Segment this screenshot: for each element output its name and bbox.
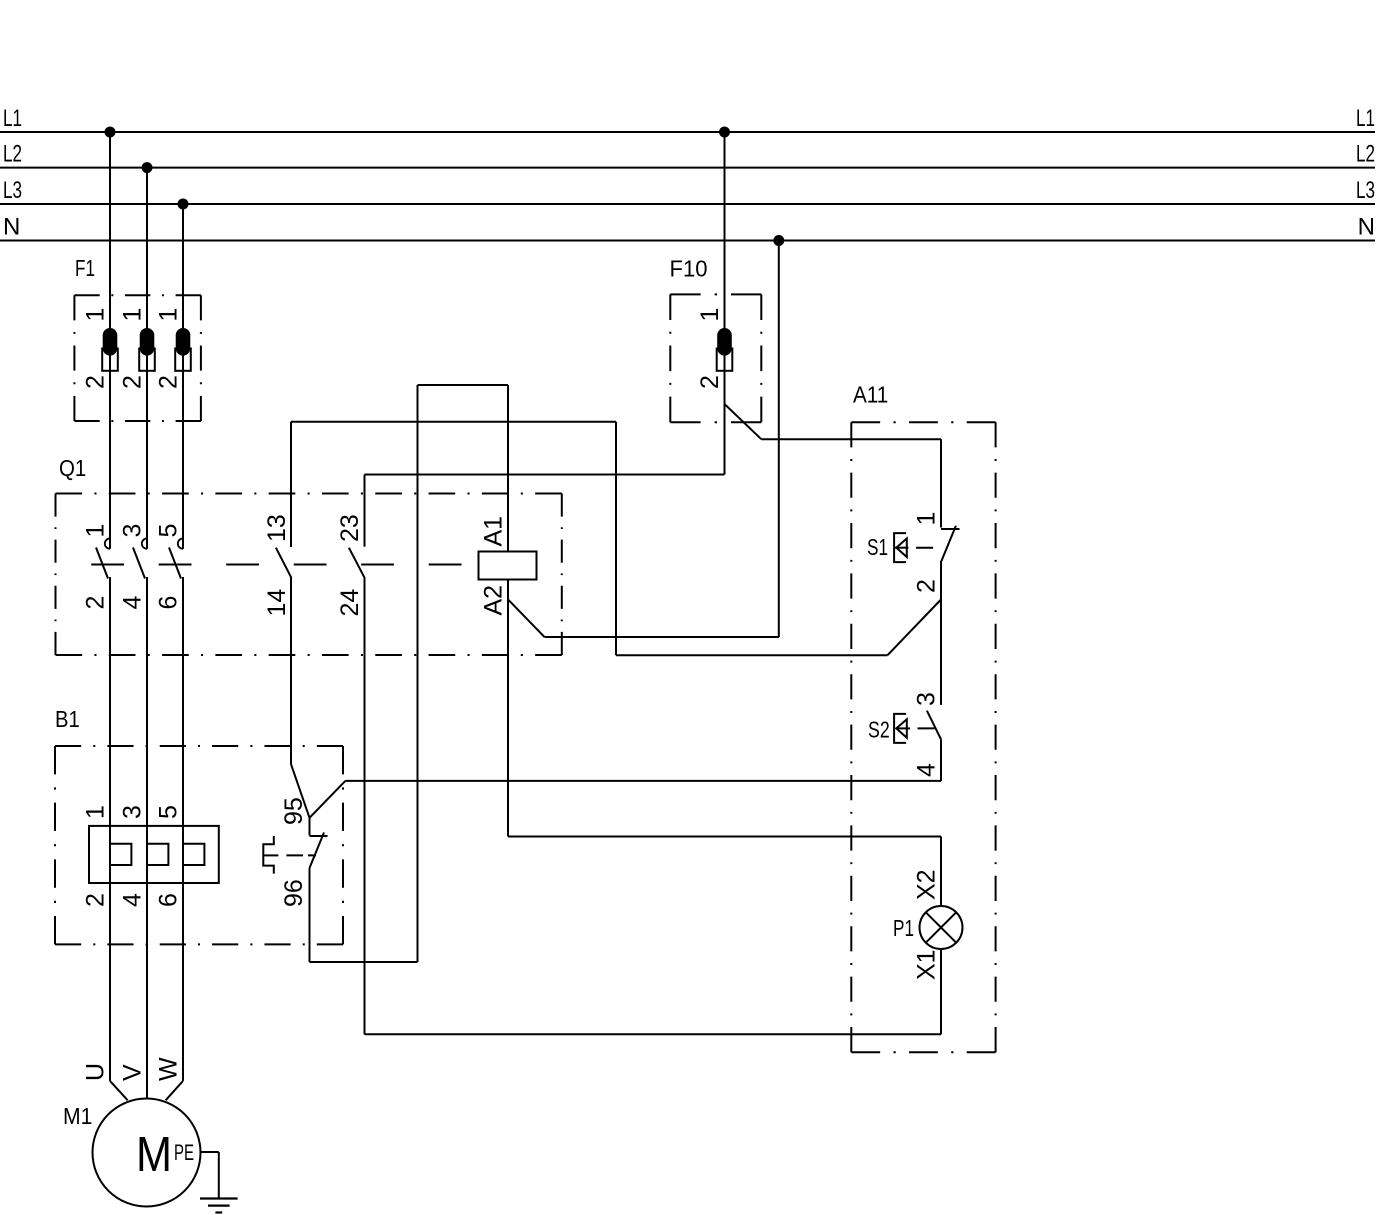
motor PE text	[174, 1140, 194, 1165]
svg-text:S1: S1	[867, 534, 888, 560]
wire S1 to S2 lead	[940, 600, 942, 705]
pin 2 of F1 pole 1	[82, 375, 110, 389]
svg-text:24: 24	[336, 589, 364, 617]
fuse F1 pole 2	[139, 328, 155, 371]
svg-text:2: 2	[913, 579, 941, 593]
thermal trip linkage dashed	[286, 854, 316, 856]
pin 96 of B1	[280, 879, 308, 907]
svg-text:1: 1	[913, 512, 941, 526]
wire 14 to 95 diagonal	[291, 764, 310, 818]
pin 3 of B1	[119, 805, 147, 819]
pin 3 of S2	[913, 692, 941, 706]
contact B1 95-96 arm	[310, 833, 325, 869]
pin 5 of Q1	[155, 524, 183, 538]
contact Q1 aux 23-24	[349, 548, 365, 578]
svg-text:3: 3	[119, 524, 147, 538]
wire X1 horizontal to 24	[365, 1033, 942, 1035]
svg-text:X2: X2	[913, 869, 941, 900]
motor M1	[93, 1099, 201, 1207]
contact Q1 aux 13-14	[276, 548, 291, 578]
thermal trip linkage solid	[263, 854, 278, 856]
wire S1-2 horizontal to 13	[616, 654, 888, 656]
fuse F1 pole 1	[102, 328, 118, 371]
pushbutton S2 label	[868, 717, 890, 743]
node L1 left label	[3, 105, 22, 132]
coil Q1 A1-A2	[479, 552, 537, 580]
fuse F1 pole 3	[175, 328, 191, 371]
S1 actuator linkage solid	[895, 547, 908, 549]
contact Q1 main 1-2	[96, 538, 110, 578]
contact S2 NO arm	[927, 711, 941, 740]
wire S1 bottom lead	[940, 561, 942, 600]
mechanical linkage Q1 dashed	[91, 564, 478, 566]
wire F10 to S1 diagonal	[725, 404, 762, 439]
svg-text:L3: L3	[1356, 177, 1375, 204]
svg-text:L1: L1	[3, 105, 22, 132]
node L1 right label	[1356, 105, 1375, 132]
pin 2 of F1 pole 2	[119, 375, 147, 389]
contact S1 NC arm	[941, 526, 956, 562]
contact B1 95-96 bar	[310, 835, 328, 837]
svg-text:96: 96	[280, 879, 308, 907]
wire 96 down-lead	[309, 868, 311, 962]
pin 4 of S2	[913, 763, 941, 777]
overload relay B1 label	[55, 706, 80, 732]
svg-text:1: 1	[82, 308, 110, 322]
node N left label	[3, 214, 20, 241]
pin 2 of Q1	[82, 596, 110, 610]
wire X2 horizontal	[508, 836, 941, 838]
svg-text:1: 1	[119, 308, 147, 322]
wire 95 lead	[309, 818, 311, 836]
pin 4 of B1	[119, 893, 147, 907]
junction N to coil return	[773, 235, 784, 246]
terminal V label	[119, 1064, 147, 1081]
svg-text:F10: F10	[670, 256, 708, 282]
svg-text:L1: L1	[1356, 105, 1375, 132]
motor M symbol text	[136, 1128, 172, 1182]
fuse block F1 enclosure	[74, 295, 200, 421]
pin 13 of Q1	[263, 514, 291, 542]
svg-text:W: W	[155, 1057, 183, 1081]
svg-text:2: 2	[82, 375, 110, 389]
wire neutral rail N	[0, 240, 1375, 242]
fuse F10	[717, 328, 733, 371]
svg-text:B1: B1	[55, 706, 80, 732]
wire PE to ground	[201, 1152, 219, 1199]
wire power rail L2	[0, 167, 1375, 169]
svg-text:M1: M1	[63, 1103, 92, 1129]
pin X2 of P1	[913, 869, 941, 900]
svg-text:2: 2	[82, 596, 110, 610]
svg-text:5: 5	[155, 524, 183, 538]
lamp P1 label	[893, 915, 914, 941]
control station A11 label	[853, 381, 888, 407]
svg-text:M: M	[136, 1128, 172, 1182]
pin 1 of B1	[82, 805, 110, 819]
svg-text:5: 5	[155, 805, 183, 819]
wire Q1 13 up-lead	[290, 422, 292, 547]
svg-text:P1: P1	[893, 915, 914, 941]
svg-text:95: 95	[280, 797, 308, 825]
pin X1 of P1	[913, 949, 941, 980]
wire horizontal to 13	[291, 421, 616, 423]
svg-text:1: 1	[155, 308, 183, 322]
wire L3 drop to Q1 contact 5	[182, 204, 184, 549]
wire L2 drop to Q1 contact 3	[146, 168, 148, 549]
wire S1-2 diagonal	[888, 600, 942, 656]
thermal trip symbol B1	[263, 836, 274, 874]
wire X1 down-lead	[940, 949, 942, 1034]
pin 1 of F10	[696, 308, 724, 322]
svg-text:2: 2	[696, 375, 724, 389]
svg-text:A1: A1	[479, 516, 507, 547]
wire Q1 24 down-lead to lamp	[364, 577, 366, 1034]
wire F10 to 23 horizontal	[365, 474, 725, 476]
pin A2 of Q1	[479, 585, 507, 616]
heater B1 pole 3	[183, 844, 204, 865]
S1 actuator linkage dashed	[916, 547, 933, 549]
pin 6 of Q1	[155, 596, 183, 610]
svg-text:3: 3	[913, 692, 941, 706]
svg-text:F1: F1	[75, 255, 95, 281]
svg-text:S2: S2	[868, 717, 890, 743]
terminal W label	[155, 1057, 183, 1081]
contact S1 bar	[941, 528, 960, 530]
svg-text:N: N	[1358, 214, 1375, 241]
wire Q1 23 up-lead	[364, 475, 366, 547]
svg-text:6: 6	[155, 893, 183, 907]
pushbutton S1 label	[867, 534, 888, 560]
fuse F10 label	[670, 256, 708, 282]
svg-text:14: 14	[263, 589, 291, 617]
wire riser 13 feed	[615, 422, 617, 656]
svg-text:1: 1	[82, 524, 110, 538]
contactor Q1 enclosure	[56, 494, 562, 656]
junction L1 to F10	[719, 127, 730, 138]
wire A2 to N horizontal	[545, 636, 779, 638]
heater B1 pole 2	[147, 844, 168, 865]
wire S1 top lead	[940, 439, 942, 527]
svg-text:23: 23	[336, 514, 364, 542]
fuse F10 enclosure	[670, 294, 761, 422]
svg-text:4: 4	[119, 893, 147, 907]
heater element block B1	[89, 826, 219, 883]
svg-text:X1: X1	[913, 949, 941, 980]
pin 1 of S1	[913, 512, 941, 526]
wire S2 bottom lead	[940, 739, 942, 781]
overload relay B1 enclosure	[55, 746, 343, 944]
pin A1 of Q1	[479, 516, 507, 547]
S2 actuator linkage dashed	[918, 727, 935, 729]
ground symbol	[200, 1199, 238, 1213]
node L3 left label	[3, 177, 22, 204]
svg-text:6: 6	[155, 596, 183, 610]
svg-text:2: 2	[155, 375, 183, 389]
pin 6 of B1	[155, 893, 183, 907]
wire power rail L3	[0, 203, 1375, 205]
wire Q1 14 down-lead	[290, 577, 292, 764]
svg-text:3: 3	[119, 805, 147, 819]
svg-text:U: U	[82, 1063, 110, 1081]
pin 1 of F1 pole 2	[119, 308, 147, 322]
svg-text:N: N	[3, 214, 20, 241]
fuse F1 label	[75, 255, 95, 281]
junction L2 to F1 phase 2	[142, 162, 153, 173]
svg-text:2: 2	[119, 375, 147, 389]
pin 2 of S1	[913, 579, 941, 593]
pin 1 of F1 pole 1	[82, 308, 110, 322]
pin 5 of B1	[155, 805, 183, 819]
wire L1 drop to Q1 contact 1	[109, 132, 111, 549]
svg-text:2: 2	[82, 893, 110, 907]
terminal U label	[82, 1063, 110, 1081]
node N right label	[1358, 214, 1375, 241]
svg-text:A11: A11	[853, 381, 888, 407]
svg-text:1: 1	[696, 308, 724, 322]
pin 23 of Q1	[336, 514, 364, 542]
junction L1 to F1 phase 1	[105, 127, 116, 138]
svg-text:L2: L2	[3, 141, 22, 168]
svg-text:L2: L2	[1356, 141, 1375, 168]
pin 1 of Q1	[82, 524, 110, 538]
S2 actuator linkage solid	[897, 727, 910, 729]
pushbutton S2 actuator	[894, 714, 907, 743]
junction L3 to F1 phase 3	[178, 199, 189, 210]
heater B1 pole 1	[110, 844, 131, 865]
control station A11 enclosure	[851, 422, 995, 1052]
pin 95 of B1	[280, 797, 308, 825]
wire B1 4 to motor V	[146, 577, 148, 1099]
contact Q1 main 3-4	[133, 538, 147, 578]
pin 1 of F1 pole 3	[155, 308, 183, 322]
node L3 right label	[1356, 177, 1375, 204]
wire coil A2 down-lead	[507, 580, 509, 837]
wire coil top loop horizontal	[418, 384, 509, 386]
pushbutton S1 actuator	[894, 533, 907, 562]
wire F10 to S1 horizontal	[761, 438, 941, 440]
svg-text:13: 13	[263, 514, 291, 542]
pin 2 of F1 pole 3	[155, 375, 183, 389]
svg-text:4: 4	[119, 596, 147, 610]
wire S2-4 horizontal	[345, 780, 941, 782]
pin 2 of F10	[696, 375, 724, 389]
pin 24 of Q1	[336, 589, 364, 617]
pin 2 of B1	[82, 893, 110, 907]
svg-text:4: 4	[913, 763, 941, 777]
wire L1 drop to F10	[724, 132, 726, 404]
wire B1 2 to motor U	[110, 577, 128, 1100]
pin 4 of Q1	[119, 596, 147, 610]
svg-text:Q1: Q1	[59, 455, 86, 481]
svg-text:PE: PE	[174, 1140, 194, 1165]
node L2 left label	[3, 141, 22, 168]
wire X2 down to lamp	[940, 837, 942, 907]
contact Q1 main 5-6	[169, 538, 183, 578]
svg-text:A2: A2	[479, 585, 507, 616]
svg-text:1: 1	[82, 805, 110, 819]
node L2 right label	[1356, 141, 1375, 168]
wire power rail L1	[0, 131, 1375, 133]
svg-text:V: V	[119, 1064, 147, 1081]
pin 14 of Q1	[263, 589, 291, 617]
wire A2 to N diagonal	[508, 600, 545, 638]
wire S2-4 to 95 diagonal	[310, 781, 346, 818]
wire F10 down to 23 feed	[724, 404, 726, 475]
wire 96 horizontal	[310, 961, 418, 963]
wire N drop	[778, 241, 780, 638]
wire B1 6 to motor W	[166, 577, 183, 1100]
wire 96 riser	[417, 385, 419, 962]
lamp P1	[920, 906, 963, 949]
svg-text:L3: L3	[3, 177, 22, 204]
wire coil A1 up-lead	[507, 385, 509, 552]
pin 3 of Q1	[119, 524, 147, 538]
contactor Q1 label	[59, 455, 86, 481]
motor M1 label	[63, 1103, 92, 1129]
